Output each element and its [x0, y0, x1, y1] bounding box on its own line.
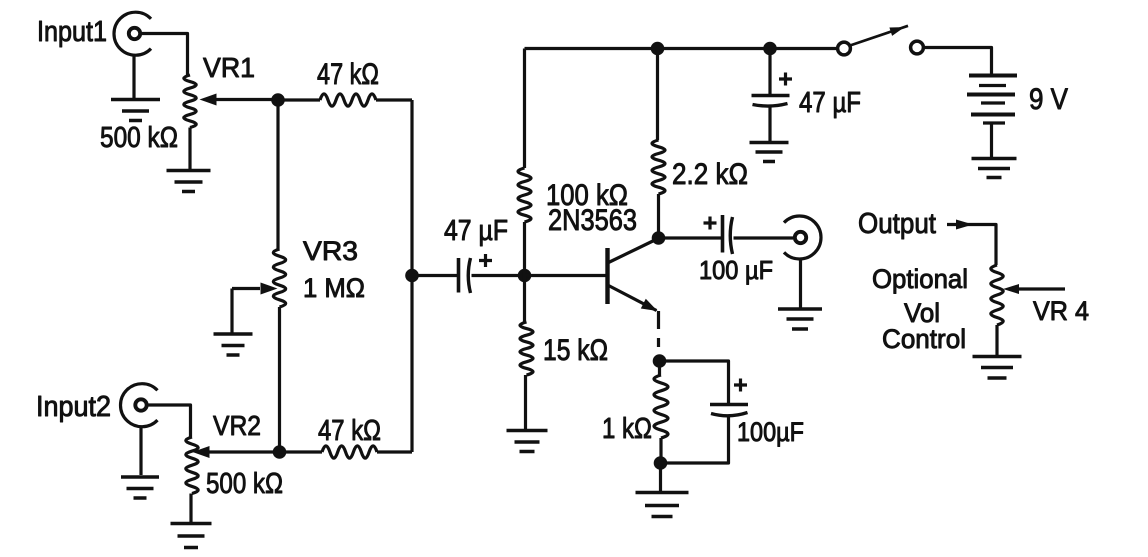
- svg-text:VR1: VR1: [203, 52, 255, 83]
- capacitor C1 47uF coupling: [412, 274, 457, 277]
- svg-text:100µF: 100µF: [737, 417, 804, 447]
- wire J2 to VR2 top: [149, 405, 191, 437]
- wire switch to battery: [924, 48, 992, 75]
- connector J1 Input1 (BNC): [114, 12, 151, 55]
- connector J3 output (BNC): [784, 216, 821, 259]
- wire rail down to R3: [523, 49, 526, 169]
- potentiometer VR3 1M: [273, 249, 285, 307]
- svg-text:47 µF: 47 µF: [799, 87, 861, 119]
- wire VR2 wiper to node B: [209, 450, 280, 453]
- svg-text:Input2: Input2: [36, 391, 111, 423]
- wire base: [525, 274, 606, 277]
- wire VR3 bottom to node B: [278, 307, 281, 452]
- ground under VR1: [167, 171, 211, 192]
- svg-text:100 µF: 100 µF: [699, 255, 773, 285]
- wire VR4 to ground: [995, 325, 998, 355]
- connector J2 Input2 (BNC): [121, 384, 158, 427]
- capacitor C2 100uF bypass: [660, 361, 729, 404]
- wire J1 ground stem: [132, 55, 135, 98]
- node D (base node): [518, 269, 532, 283]
- ground under VR4: [973, 357, 1022, 379]
- node E (collector): [652, 231, 666, 245]
- wire J2 ground stem: [139, 427, 142, 476]
- svg-text:1 kΩ: 1 kΩ: [602, 413, 652, 445]
- svg-text:2.2 kΩ: 2.2 kΩ: [672, 158, 748, 191]
- svg-text:VR3: VR3: [303, 236, 358, 266]
- svg-text:VR 4: VR 4: [1033, 296, 1089, 326]
- ground under J3: [778, 309, 822, 329]
- svg-text:47 µF: 47 µF: [444, 215, 508, 247]
- ground under R5: [507, 431, 548, 452]
- resistor R5 15k: [523, 276, 526, 323]
- capacitor C4 47uF filter: [768, 49, 771, 95]
- wire VR1 bottom to ground: [188, 128, 191, 170]
- svg-text:Control: Control: [882, 324, 966, 354]
- node A (VR1 wiper / 47k / VR3 junction): [271, 93, 285, 107]
- switch S1 lever: [850, 26, 908, 46]
- svg-text:47 kΩ: 47 kΩ: [318, 415, 381, 447]
- svg-text:15 kΩ: 15 kΩ: [543, 334, 608, 367]
- wire VR1 wiper from node A: [214, 98, 278, 101]
- wire emitter dashed lead: [657, 311, 660, 347]
- ground under C4: [750, 143, 789, 162]
- resistor R2 47k (bottom): [280, 450, 323, 453]
- wire VR3 wiper to ground: [232, 289, 260, 334]
- top supply rail: [525, 47, 839, 50]
- wire to ground under R6: [659, 463, 662, 491]
- svg-text:500 kΩ: 500 kΩ: [206, 468, 283, 500]
- ground under R6: [636, 493, 689, 517]
- ground at VR3 wiper: [214, 334, 253, 355]
- potentiometer VR2 500k: [186, 437, 198, 494]
- wire VR4 wiper: [1018, 287, 1065, 290]
- ground under VR2: [171, 524, 212, 548]
- ground under Input2: [121, 477, 159, 498]
- switch S1 pole 1: [838, 42, 851, 55]
- node G (emitter bottom): [654, 456, 668, 470]
- wire output arrow to VR4: [947, 225, 996, 266]
- rail junction dot above 2.2k: [651, 42, 665, 56]
- svg-text:500 kΩ: 500 kΩ: [100, 122, 178, 154]
- resistor R4 2.2k: [656, 49, 659, 141]
- battery B1 9V: [967, 76, 1017, 124]
- node F (emitter top): [653, 354, 667, 368]
- svg-text:Output: Output: [858, 208, 936, 240]
- svg-text:Input1: Input1: [37, 16, 107, 48]
- rail junction dot above C4: [763, 42, 777, 56]
- node B (VR2 wiper / VR3 / 47k junction): [273, 445, 287, 459]
- wire bus node A down to VR3: [276, 100, 279, 249]
- potentiometer VR1 500k: [184, 75, 196, 128]
- wire J3 ground stem: [799, 259, 802, 308]
- svg-text:1 MΩ: 1 MΩ: [303, 273, 365, 303]
- svg-text:2N3563: 2N3563: [548, 204, 637, 237]
- svg-text:9 V: 9 V: [1029, 83, 1068, 116]
- resistor R1 47k (top): [278, 98, 320, 101]
- node C (bus / C1 junction): [405, 269, 419, 283]
- resistor R6 1k: [654, 375, 668, 438]
- transistor Q1 2N3563: [608, 239, 658, 311]
- wire battery to ground: [990, 123, 993, 157]
- svg-text:VR2: VR2: [213, 410, 261, 441]
- switch S1 pole 2: [911, 41, 924, 54]
- ground under Input1: [111, 100, 160, 121]
- wire J1 to VR1 top: [142, 34, 188, 76]
- svg-text:Optional: Optional: [872, 264, 968, 294]
- wire VR2 bottom to ground: [189, 494, 192, 523]
- resistor R3 100k: [518, 168, 531, 222]
- wire vertical bus R1/R2 to node C: [410, 100, 413, 452]
- potentiometer VR4: [991, 265, 1003, 325]
- capacitor C3 100uF output coupling: [659, 236, 722, 239]
- svg-text:47 kΩ: 47 kΩ: [317, 58, 379, 91]
- ground under battery: [972, 159, 1017, 178]
